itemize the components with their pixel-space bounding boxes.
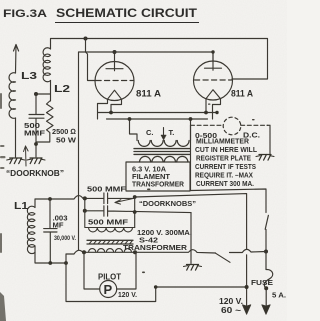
wire below S1 <box>264 230 268 254</box>
transformer T1 secondary 6.3V <box>138 141 189 147</box>
wire grid lead tube1 <box>86 39 97 81</box>
arrow AC terminal right <box>262 305 270 315</box>
svg-text:FIG.3A: FIG.3A <box>3 8 47 20</box>
wire meter line B-minus <box>191 125 271 153</box>
wire rail drops to filament transformer <box>128 117 193 140</box>
wire tank to primary jog <box>66 250 84 263</box>
value fuse 5A <box>272 291 286 300</box>
capacitor C4 .003MF <box>44 199 57 263</box>
inductor L1 tank coil <box>27 206 35 253</box>
label L3 <box>21 70 37 82</box>
label PILOT <box>98 273 121 282</box>
svg-text:120 V.: 120 V. <box>118 290 137 299</box>
wire primary-right to switch S2 <box>135 250 216 253</box>
wire filament rail B <box>107 118 208 120</box>
inductor L2 <box>43 48 51 101</box>
core T1 <box>134 149 190 155</box>
capacitor C2 doorknob upper 500MMF <box>85 193 135 204</box>
label DOORKNOBS <box>139 199 196 208</box>
wire grid-leak tap <box>34 92 51 96</box>
value pilot 120V <box>118 290 137 299</box>
label L2 <box>54 83 70 95</box>
speck marks <box>142 104 255 274</box>
value C1 500 MMF <box>24 123 46 138</box>
label T1 center tap C.T. <box>146 128 174 137</box>
value C4 .003 MF <box>53 214 68 230</box>
wire tank top <box>35 196 85 208</box>
svg-text:500: 500 <box>24 123 40 130</box>
node doorknob left junctions <box>83 196 87 212</box>
transformer T1 primary 120V <box>140 156 188 162</box>
svg-text:500 MMF: 500 MMF <box>88 218 129 227</box>
svg-text:L3: L3 <box>21 70 37 82</box>
switch S2 blade <box>216 253 231 262</box>
tube V2 811A <box>194 52 233 100</box>
wire grid bus (top wire L2 top to both grids) <box>51 39 268 80</box>
wire filament rail A <box>98 112 217 114</box>
wire AC neutral bottom run <box>66 263 249 302</box>
ground chassis (L3) <box>7 158 25 164</box>
svg-text:C.: C. <box>146 128 154 137</box>
value C3 500 MMF <box>88 218 129 227</box>
wire V1 filament legs <box>98 99 122 119</box>
wire V2 filament legs <box>204 99 220 119</box>
svg-text:30,000 V.: 30,000 V. <box>54 235 76 242</box>
ground chassis (doorknob leg) <box>184 265 202 271</box>
wire doorknob ground leg <box>190 213 192 264</box>
inductor L3 <box>9 45 19 158</box>
label DOORKNOB <box>6 169 64 178</box>
core T2 hatched <box>87 240 133 244</box>
wire plate bus <box>79 50 215 250</box>
svg-text:PILOT: PILOT <box>98 273 121 282</box>
wire T1 center tap arrow <box>161 128 166 141</box>
svg-text:811 A: 811 A <box>231 89 253 100</box>
wire inner AC line <box>133 194 247 309</box>
annotation arrow doorknob <box>24 146 29 166</box>
svg-text:L2: L2 <box>54 83 70 95</box>
svg-text:FUSE: FUSE <box>251 278 273 287</box>
value T2 1200V 300MA S-42 transformer <box>123 228 192 252</box>
label V2 811A <box>231 89 253 100</box>
label L1 <box>14 200 28 212</box>
wire meter drop <box>190 125 192 190</box>
svg-text:811 A: 811 A <box>136 89 161 100</box>
transformer T2 secondary 1200V <box>85 211 135 232</box>
node grid-bus junction <box>84 37 88 41</box>
scan smudges left edge <box>0 93 6 321</box>
lamp pilot P <box>84 252 136 297</box>
svg-text:50 W: 50 W <box>56 136 77 145</box>
label meter 0-500 D.C. <box>195 131 260 141</box>
capacitor C1 500 MMF grid <box>29 94 44 157</box>
transformer T2 primary 120V <box>82 249 137 255</box>
label 120V 60hz <box>219 297 243 315</box>
box T1 label <box>126 162 190 191</box>
svg-text:500 MMF: 500 MMF <box>87 185 127 194</box>
wire outer AC line (switch+fuse leg) <box>191 189 267 213</box>
svg-text:CURRENT 300 MA.: CURRENT 300 MA. <box>196 179 254 188</box>
svg-text:5 A.: 5 A. <box>272 291 286 300</box>
wire S2 to fuse node <box>230 249 267 252</box>
svg-text:60 ~: 60 ~ <box>221 306 241 315</box>
fuse F1 5A <box>264 252 272 310</box>
resistor R1 2500 ohm <box>36 101 53 142</box>
value C4 30000V <box>54 235 76 242</box>
value R1 2500 ohm 50W <box>52 127 77 145</box>
ground chassis (meter line) <box>256 155 274 161</box>
svg-text:TRANSFORMER: TRANSFORMER <box>132 180 185 189</box>
svg-text:TRANSFORMER: TRANSFORMER <box>123 243 188 252</box>
note meter text block <box>195 137 258 189</box>
value C2 500 MMF <box>87 185 127 194</box>
node plate junction V1 <box>113 50 117 54</box>
switch S1 <box>265 215 268 229</box>
letter P in pilot lamp <box>104 282 113 297</box>
svg-text:120 V.: 120 V. <box>219 297 243 306</box>
arrow AC terminal left <box>242 305 250 315</box>
meter M1 0-500 DC (dashed circle) <box>223 117 241 135</box>
svg-text:MMF: MMF <box>24 131 46 138</box>
annotation arrow doorknobs <box>115 199 133 205</box>
svg-text:P: P <box>104 282 113 297</box>
svg-text:SCHEMATIC CIRCUIT: SCHEMATIC CIRCUIT <box>56 8 197 20</box>
capacitor C3 doorknob lower 500MMF <box>85 206 191 216</box>
svg-text:T.: T. <box>169 128 175 137</box>
label FUSE <box>251 278 273 287</box>
wire tank bottom <box>35 246 68 265</box>
ground chassis (grid leak) <box>27 158 45 164</box>
title FIG.3A SCHEMATIC CIRCUIT <box>3 8 199 23</box>
label V1 811A <box>136 89 161 100</box>
svg-text:L1: L1 <box>14 200 28 212</box>
svg-text:“DOORKNOB”: “DOORKNOB” <box>6 169 64 178</box>
svg-text:“DOORKNOBS”: “DOORKNOBS” <box>139 199 196 208</box>
svg-text:MF: MF <box>53 221 65 230</box>
value T1 6.3V 10A filament transformer <box>132 165 185 189</box>
wire doorknob right link <box>133 197 137 228</box>
tube V1 811A <box>95 52 134 101</box>
